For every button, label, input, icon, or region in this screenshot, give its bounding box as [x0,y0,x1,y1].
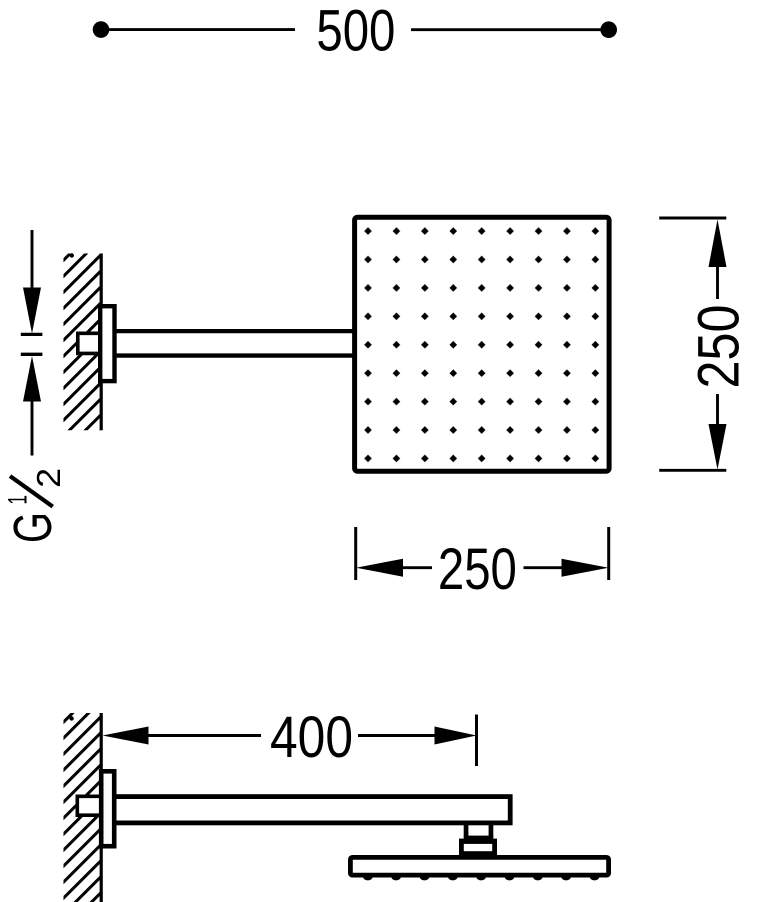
dimension 500: right end dot [600,21,617,38]
dimension 500: left line segment [105,28,295,31]
side view: head connector neck right bar [489,824,494,837]
top view: supply pipe in wall [78,333,101,353]
side view: head connector dark collar [464,836,494,844]
top view: shower arm bottom line [115,353,354,357]
side view: wall flange escutcheon [101,771,114,846]
svg-text:400: 400 [270,705,353,770]
side view: wall surface edge line [100,713,103,902]
dimension 400: right line segment [358,734,436,737]
top view: wall flange escutcheon [100,306,114,381]
side view: supply pipe in wall [77,796,100,815]
top view: wall hatching [60,187,106,473]
top view: stray hatch dot [70,253,74,257]
dimension 500: right line segment [411,28,605,31]
side view: shower arm [114,797,510,823]
left dimension: lower tick [21,353,43,356]
bottom dimension 250: right arrowhead [562,559,609,577]
side view: nozzle bumps [363,874,599,881]
right dimension 250: upper line segment [716,265,719,299]
side view: shower head plate [350,857,608,875]
svg-text:250: 250 [687,305,752,389]
svg-text:250: 250 [438,537,517,602]
side view: head connector base [461,841,494,854]
left dimension: upper tick [21,333,43,336]
dimension 400: left arrowhead [103,727,149,745]
dimension 400: right extension tick [475,715,478,767]
bottom dimension 250: left arrowhead [356,559,403,577]
bottom dimension 250: right extension tick [607,527,610,580]
left dimension: up arrowhead [23,356,41,402]
right dimension 250: down arrowhead [709,424,727,470]
right dimension 250: value label (rotated) [687,305,752,389]
side view: head connector neck left bar [464,824,469,837]
top view: shower arm top line [115,329,354,333]
left dimension: lower extension line [31,399,34,456]
left dimension: G 1/2 thread label (rotated) [2,468,67,543]
bottom dimension 250: left line segment [401,566,432,569]
dimension 400: left line segment [146,734,261,737]
left dimension: down arrowhead [23,288,41,334]
dimension 400: right arrowhead [435,727,477,745]
svg-text:G: G [3,512,63,543]
side view: stray hatch dot [69,716,73,720]
side view: wall hatching [60,601,106,902]
svg-text:1: 1 [2,495,32,505]
top view: wall surface edge line [100,254,103,431]
top view: nozzle dot grid 9x9 [363,226,600,463]
right dimension 250: top extension tick [659,217,726,220]
left dimension: upper extension line [31,230,34,290]
svg-text:2: 2 [30,468,67,488]
svg-text:500: 500 [316,0,395,64]
dimension 500: left end dot [93,21,110,38]
right dimension 250: bottom extension tick [659,469,726,472]
right dimension 250: up arrowhead [709,220,727,268]
bottom dimension 250: right line segment [524,566,564,569]
right dimension 250: lower line segment [716,394,719,426]
top view: square shower head outline [355,217,609,471]
bottom dimension 250: left extension tick [354,527,357,580]
